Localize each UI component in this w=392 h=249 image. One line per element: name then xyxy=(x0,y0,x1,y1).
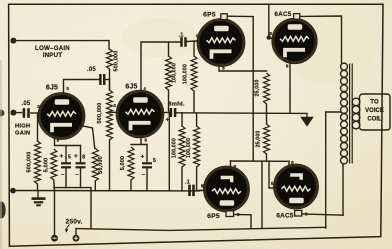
wire 25k lower bottom xyxy=(266,154,268,161)
svg-text:6AC5: 6AC5 xyxy=(274,11,291,18)
label TO VOICE COIL xyxy=(365,100,384,123)
label 250 v. xyxy=(65,218,82,225)
pin 8 of V5 xyxy=(234,164,237,169)
svg-text:6J5: 6J5 xyxy=(125,84,137,91)
capacitor .05 interstage xyxy=(100,74,104,85)
svg-text:100,000: 100,000 xyxy=(186,138,192,158)
label HIGH GAIN xyxy=(15,124,30,137)
wire high-gain to cap xyxy=(13,112,22,114)
label 6AC5 V4 xyxy=(274,11,291,18)
label .1 lower xyxy=(185,179,190,185)
svg-text:GAIN: GAIN xyxy=(15,130,30,136)
svg-text:COIL: COIL xyxy=(367,117,382,123)
capacitor .05 high-gain xyxy=(24,108,29,118)
resistor 100,000 UR xyxy=(191,56,197,91)
label 6P5 V3 xyxy=(203,12,216,19)
wire V3 plate run xyxy=(227,16,253,161)
wire V2 to 8mfd xyxy=(162,112,169,114)
wire cap5 bottom xyxy=(65,168,67,188)
label 5,000 V1 xyxy=(43,158,49,173)
capacitor 5 mfd V2 xyxy=(142,163,152,167)
capacitor 8mfd xyxy=(171,108,175,117)
resistor 100,000 UL xyxy=(166,56,172,90)
svg-text:5: 5 xyxy=(271,181,274,186)
label .05 high-gain xyxy=(22,101,31,107)
wire plus to rail xyxy=(75,229,77,235)
label LOW-GAIN INPUT xyxy=(35,45,70,59)
wire 100k UR bottom xyxy=(193,91,195,113)
terminal plus xyxy=(73,235,80,242)
wire ground stub xyxy=(37,191,39,198)
wire V2 plate riser xyxy=(141,42,180,92)
pin 3 of V2 xyxy=(113,103,116,108)
label 500,000 low-gain xyxy=(114,51,120,72)
wire 100k UR top xyxy=(193,42,195,56)
wire V3 cathode xyxy=(219,65,267,71)
wire cap5 V2 bottom xyxy=(146,168,148,191)
svg-text:8: 8 xyxy=(222,66,225,71)
cap box V3 xyxy=(221,14,227,20)
pin 5 of V6 xyxy=(271,181,274,186)
wire cap to node xyxy=(105,79,110,81)
svg-text:8: 8 xyxy=(286,64,289,69)
wire cap8 bottom xyxy=(80,168,82,188)
wire 100k LR bottom xyxy=(196,167,198,191)
node LOW-GAIN input terminal xyxy=(10,38,16,44)
resistor 50,000 xyxy=(92,149,98,182)
wire transformer bottom xyxy=(342,164,344,215)
wire B rail xyxy=(76,227,326,230)
wire 500k to junction xyxy=(109,69,111,90)
node ground-bus junction xyxy=(10,188,16,194)
wire V1 grid resistor bottom xyxy=(37,184,39,191)
svg-text:8: 8 xyxy=(269,31,272,36)
label 100,000 LL xyxy=(171,138,177,158)
wire 50k bottom xyxy=(94,181,96,191)
pin 5 of V4 xyxy=(201,184,204,189)
capacitor 5 mfd V1 xyxy=(61,163,71,167)
svg-text:+: + xyxy=(60,153,64,160)
wire V2 grid tap xyxy=(110,111,117,113)
svg-text:5: 5 xyxy=(66,86,69,91)
resistor 100,000 LR xyxy=(194,126,200,167)
wire 25k upper bottom xyxy=(266,104,268,113)
svg-text:500,000: 500,000 xyxy=(97,103,103,124)
svg-text:.05: .05 xyxy=(87,67,96,73)
wire V5 grid xyxy=(199,189,205,191)
label 50,000 xyxy=(98,156,104,174)
pin 8 of V4 cathode xyxy=(286,64,289,69)
svg-text:+: + xyxy=(141,154,145,161)
pin 4 of V2 top xyxy=(144,86,147,91)
tube V4 6AC5 xyxy=(272,18,317,63)
wire 8mfd row to arrow xyxy=(175,112,307,115)
wire V1 grid resistor top xyxy=(37,113,39,141)
wire y161 row xyxy=(231,160,290,162)
svg-text:100,000: 100,000 xyxy=(171,138,177,158)
wire V2 cathode xyxy=(140,137,142,145)
transformer core xyxy=(350,64,353,164)
svg-text:−: − xyxy=(142,173,146,179)
svg-text:8mfd.: 8mfd. xyxy=(168,101,185,107)
wire V4 plate to transformer xyxy=(300,16,342,63)
resistor 25,000 upper xyxy=(264,73,270,104)
label + 8mfd xyxy=(166,118,170,124)
wire cap8 stub xyxy=(80,146,82,163)
transformer primary xyxy=(341,63,348,164)
wire bias drop xyxy=(261,161,263,228)
wire V1 cathode xyxy=(55,138,81,146)
resistor 500,000 (low-gain grid) xyxy=(107,49,113,69)
label 500,000 V2 grid xyxy=(97,103,103,124)
pin 5 of V3 xyxy=(196,34,199,39)
wire 5k to minus line xyxy=(53,180,56,235)
svg-text:500,000: 500,000 xyxy=(114,51,120,72)
svg-text:5: 5 xyxy=(202,183,205,188)
node V4 grid dot xyxy=(267,35,271,39)
svg-text:8: 8 xyxy=(234,164,237,169)
svg-text:8: 8 xyxy=(57,138,60,143)
wire V2 cathode tee xyxy=(131,144,147,146)
svg-text:−: − xyxy=(75,173,79,179)
svg-text:6J5: 6J5 xyxy=(46,85,58,92)
svg-text:5: 5 xyxy=(153,158,156,164)
wire center tap xyxy=(326,112,341,228)
resistor 500,000 (V1 grid) xyxy=(35,141,41,184)
cap box V5 xyxy=(226,211,234,217)
resistor 500,000 (V2 grid) xyxy=(107,90,113,140)
label .1 upper xyxy=(178,32,183,38)
wire 100k UL bottom xyxy=(168,90,170,113)
label 5,000 V2 xyxy=(120,156,126,171)
wire V4 cathode down xyxy=(289,62,291,113)
svg-text:8: 8 xyxy=(144,138,147,143)
wire 25k lower top xyxy=(266,113,268,124)
label 100,000 LR xyxy=(186,138,192,158)
svg-text:500,000: 500,000 xyxy=(26,152,32,173)
wire cathode mini-bus xyxy=(54,188,91,229)
pin 8 of V1 xyxy=(57,138,60,143)
cap box V6 xyxy=(295,210,302,216)
capacitor .1 upper xyxy=(182,37,186,47)
ground symbol xyxy=(32,199,46,206)
pin 3 of V6 xyxy=(305,211,308,216)
svg-text:25,000: 25,000 xyxy=(256,130,262,147)
label 25,000 upper xyxy=(255,79,261,96)
svg-text:.1: .1 xyxy=(178,32,183,38)
arrow 250v xyxy=(65,225,70,233)
tube V3 6P5 xyxy=(197,19,245,67)
resistor 5,000 (V2 cathode) xyxy=(128,147,134,180)
wire 100k LR top xyxy=(196,113,198,126)
label +5 V1 xyxy=(60,153,72,179)
tube V1 6J5 xyxy=(38,93,85,140)
svg-text:5: 5 xyxy=(68,155,71,161)
wire 100k LL top xyxy=(181,113,183,126)
label +8 V1 xyxy=(74,153,85,179)
label .05 interstage xyxy=(87,67,96,73)
voice coil box xyxy=(360,94,391,130)
wire V6 top stub xyxy=(288,161,290,166)
wire cap to 6P5 grid xyxy=(186,40,199,43)
svg-text:.05: .05 xyxy=(22,101,31,107)
node HIGH-GAIN input terminal xyxy=(10,110,16,116)
pin 8 of V3 xyxy=(222,66,225,71)
cap box V4 xyxy=(294,14,300,20)
label 6J5 V2 xyxy=(125,84,137,91)
pin 8 of V6 xyxy=(291,160,294,165)
wire V5 top stub xyxy=(230,161,232,168)
capacitor .1 lower xyxy=(190,185,194,197)
wire V4 grid from frame xyxy=(269,5,274,39)
svg-text:8: 8 xyxy=(291,160,294,165)
svg-text:8: 8 xyxy=(82,155,85,161)
svg-text:100,000: 100,000 xyxy=(171,63,177,83)
svg-text:+: + xyxy=(74,153,78,160)
resistor 100,000 LL xyxy=(179,126,185,167)
svg-text:6P5: 6P5 xyxy=(207,213,220,220)
label 6P5 V5 xyxy=(207,213,220,220)
wire V1 pin4 to 50k xyxy=(81,126,95,149)
wire cap5 V2 stub xyxy=(146,145,148,163)
wire V5 box out xyxy=(234,214,251,228)
label +5 V2 xyxy=(141,154,157,179)
wire V2 grid resistor bottom xyxy=(109,140,111,191)
resistor 25,000 lower xyxy=(264,124,270,154)
resistor 5,000 (V1 cathode) xyxy=(51,149,57,180)
wire to V4 grid xyxy=(194,189,204,191)
pin 5 of V1 xyxy=(66,86,69,91)
svg-text:.1: .1 xyxy=(185,179,190,185)
svg-text:50,000: 50,000 xyxy=(98,156,104,174)
svg-text:250v.: 250v. xyxy=(65,218,82,225)
wire 5k V2 bottom xyxy=(130,180,132,191)
svg-text:VOICE: VOICE xyxy=(365,108,384,114)
label 500,000 V1 grid xyxy=(26,152,32,173)
wire ground bus xyxy=(11,190,200,192)
svg-text:HIGH: HIGH xyxy=(15,124,30,130)
capacitor 8 mfd V1 xyxy=(76,163,86,167)
wire node to V2 grid resistor xyxy=(109,80,111,91)
svg-text:3: 3 xyxy=(113,103,116,108)
transformer secondary xyxy=(352,98,360,129)
wire cap5 stub xyxy=(65,146,67,163)
pin 3 of V1 xyxy=(37,104,40,109)
svg-text:100,000: 100,000 xyxy=(183,64,189,84)
svg-text:TO: TO xyxy=(370,100,379,106)
wire 100k UL top xyxy=(168,42,170,56)
pin 8 of V4 grid xyxy=(269,31,272,36)
tube V2 6J5 xyxy=(116,90,164,138)
tube V5 6P5 bottom xyxy=(204,166,250,212)
tube V6 6AC5 bottom xyxy=(274,164,319,209)
svg-text:6AC5: 6AC5 xyxy=(276,213,293,220)
pin 3 of V5 xyxy=(237,212,240,217)
terminal minus xyxy=(51,235,58,242)
wire V1 plate to coupling xyxy=(64,80,100,95)
wire cap to 6J5 grid xyxy=(31,112,41,114)
label 25,000 lower xyxy=(256,130,262,147)
label 6J5 V1 xyxy=(46,85,58,92)
svg-text:5,000: 5,000 xyxy=(120,156,126,171)
chassis arrow xyxy=(300,113,314,126)
label 100,000 UL xyxy=(171,63,177,83)
svg-text:6P5: 6P5 xyxy=(203,12,216,19)
svg-text:INPUT: INPUT xyxy=(43,52,63,59)
wire V6 grid feed xyxy=(269,161,276,188)
label 8mfd xyxy=(168,101,185,107)
label 100,000 UR xyxy=(183,64,189,84)
pin 8 of V2 xyxy=(144,138,147,143)
wire 8mfd down to bus xyxy=(168,113,170,191)
label 6AC5 V6 xyxy=(276,213,293,220)
svg-text:25,000: 25,000 xyxy=(255,79,261,96)
svg-text:5,000: 5,000 xyxy=(43,158,49,173)
pin 5 of V5 xyxy=(202,183,205,188)
svg-text:−: − xyxy=(61,173,65,179)
wire V6 box out xyxy=(302,214,343,215)
wire low-gain input run xyxy=(13,41,109,49)
wire 100k LL bottom xyxy=(181,167,183,191)
